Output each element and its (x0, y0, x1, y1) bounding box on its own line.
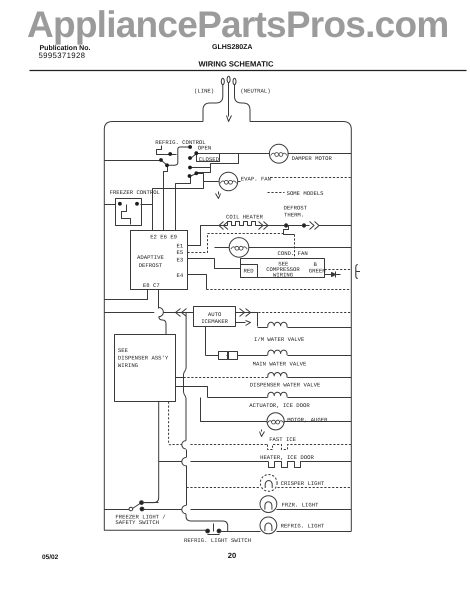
svg-text:GLHS280ZA: GLHS280ZA (212, 44, 252, 51)
svg-text:SAFETY SWITCH: SAFETY SWITCH (115, 519, 159, 526)
svg-text:EVAP. FAN: EVAP. FAN (241, 176, 271, 183)
svg-text:THERM.: THERM. (284, 212, 304, 219)
svg-text:DEFROST: DEFROST (284, 205, 308, 212)
svg-text:E4: E4 (177, 272, 184, 279)
svg-text:SEE: SEE (118, 347, 129, 354)
svg-text:DISPENSER WATER VALVE: DISPENSER WATER VALVE (250, 381, 321, 388)
svg-text:E3: E3 (177, 257, 184, 264)
svg-text:AUTO: AUTO (208, 311, 222, 318)
svg-text:5995371928: 5995371928 (39, 51, 86, 60)
svg-text:(NEUTRAL): (NEUTRAL) (240, 88, 270, 95)
svg-text:E2 E6 E9: E2 E6 E9 (150, 234, 177, 241)
svg-text:WIRING: WIRING (118, 362, 139, 369)
svg-text:AppliancePartsPros.com: AppliancePartsPros.com (27, 4, 448, 45)
svg-text:E8 C7: E8 C7 (143, 282, 160, 289)
svg-text:ICEMAKER: ICEMAKER (201, 318, 228, 325)
svg-text:ADAPTIVE: ADAPTIVE (137, 254, 164, 261)
svg-text:REFRIG. LIGHT: REFRIG. LIGHT (281, 523, 325, 530)
svg-text:DISPENSER ASS'Y: DISPENSER ASS'Y (118, 355, 169, 362)
svg-text:OPEN: OPEN (198, 145, 211, 152)
svg-text:CRISPER LIGHT: CRISPER LIGHT (281, 480, 325, 487)
svg-text:MAIN WATER VALVE: MAIN WATER VALVE (253, 361, 307, 368)
svg-text:HEATER, ICE DOOR: HEATER, ICE DOOR (260, 454, 314, 461)
svg-text:MOTOR, AUGER: MOTOR, AUGER (287, 416, 328, 423)
svg-text:FAST ICE: FAST ICE (269, 436, 296, 443)
svg-text:ACTUATOR, ICE DOOR: ACTUATOR, ICE DOOR (249, 402, 310, 409)
svg-text:GREEN: GREEN (309, 268, 326, 275)
svg-text:DAMPER MOTOR: DAMPER MOTOR (292, 155, 333, 162)
svg-text:FREEZER CONTROL: FREEZER CONTROL (110, 189, 160, 196)
svg-text:20: 20 (228, 551, 236, 560)
svg-text:(LINE): (LINE) (194, 88, 214, 95)
svg-text:I/M WATER VALVE: I/M WATER VALVE (254, 336, 305, 343)
svg-text:CLOSED: CLOSED (199, 156, 220, 163)
svg-text:COND. FAN: COND. FAN (278, 250, 308, 257)
svg-text:SOME MODELS: SOME MODELS (287, 190, 325, 197)
svg-text:REFRIG. LIGHT SWITCH: REFRIG. LIGHT SWITCH (184, 537, 251, 544)
svg-text:FRZR. LIGHT: FRZR. LIGHT (282, 502, 320, 509)
svg-text:WIRING SCHEMATIC: WIRING SCHEMATIC (199, 60, 274, 69)
svg-text:E5: E5 (177, 249, 184, 256)
svg-text:05/02: 05/02 (42, 554, 59, 561)
svg-text:WIRING: WIRING (273, 272, 294, 279)
svg-text:COIL HEATER: COIL HEATER (226, 214, 264, 221)
svg-text:DEFROST: DEFROST (139, 262, 163, 269)
svg-text:RED: RED (244, 267, 255, 274)
